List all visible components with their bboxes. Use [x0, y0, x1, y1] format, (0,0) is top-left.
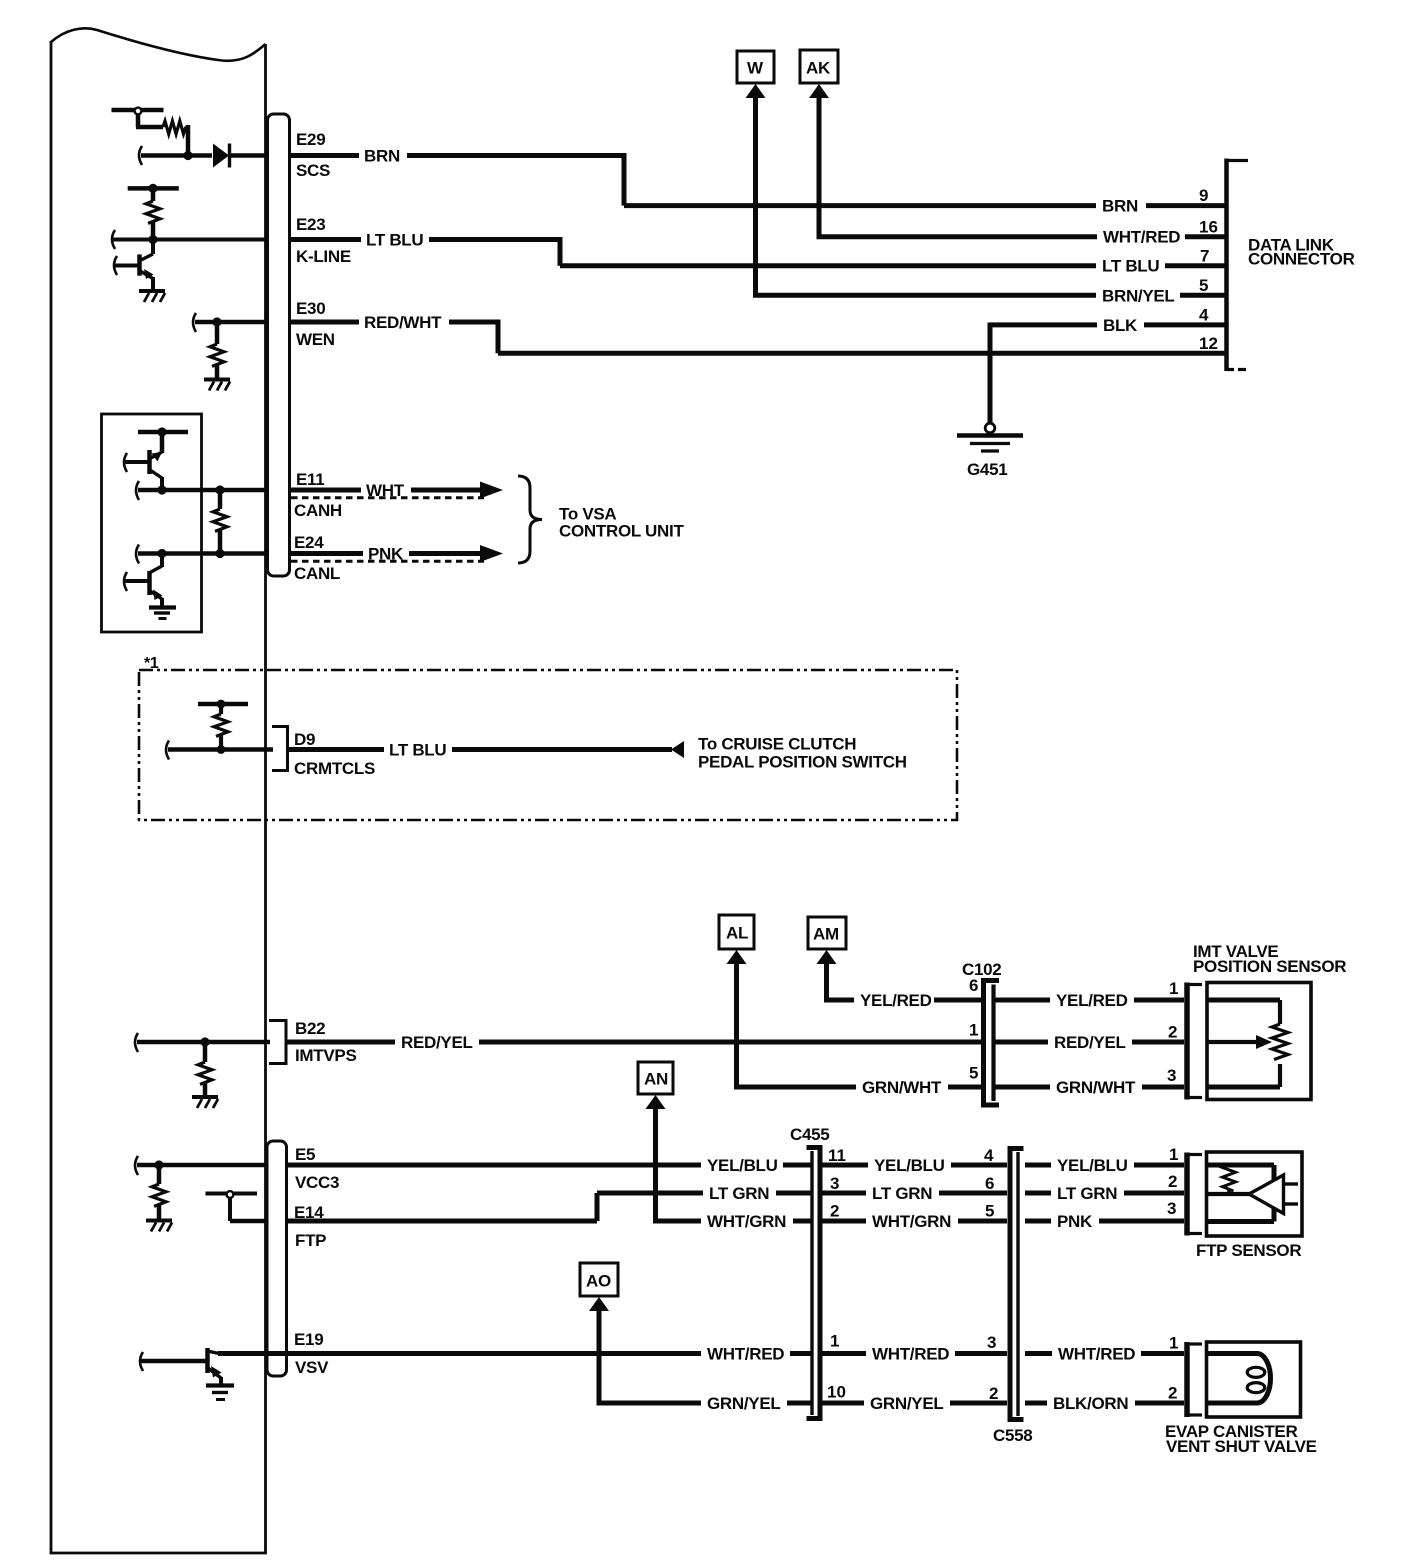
svg-text:PNK: PNK — [1057, 1212, 1093, 1231]
svg-text:9: 9 — [1199, 186, 1208, 205]
svg-text:FTP SENSOR: FTP SENSOR — [1196, 1241, 1301, 1260]
svg-text:2: 2 — [1168, 1384, 1177, 1403]
junction dot CANH — [157, 485, 166, 494]
junction dot D9 — [217, 745, 226, 754]
CAN supply bar — [138, 427, 188, 436]
resistor (VCC3 pull-down) — [152, 1165, 166, 1220]
svg-text:AL: AL — [726, 924, 748, 943]
wire LT GRN C558 to FTP sensor pin 2 — [1025, 1184, 1184, 1203]
junction dot E29 — [183, 151, 192, 160]
wire WHT/GRN C455 to C558 pin 5 — [822, 1212, 1007, 1231]
svg-text:7: 7 — [1200, 247, 1209, 266]
svg-text:FTP: FTP — [295, 1231, 326, 1250]
wire label LT BLU (DLC pin 7) — [1096, 257, 1165, 276]
svg-text:VCC3: VCC3 — [295, 1173, 339, 1192]
IMT valve position sensor connector bracket — [1186, 983, 1202, 1100]
wire WHT/RED C558 to EVAP valve pin 1 — [1025, 1345, 1184, 1364]
pin E30 WEN — [296, 299, 335, 349]
wire RED/YEL from B22 to C102 pin 1 — [286, 1033, 981, 1052]
connector box AL — [719, 915, 754, 949]
dashed line CANH — [291, 496, 484, 499]
connector C558 — [993, 1149, 1032, 1446]
svg-text:RED/YEL: RED/YEL — [1054, 1033, 1126, 1052]
wire YEL/BLU C455 to C558 pin 4 — [822, 1156, 1007, 1175]
svg-text:C102: C102 — [962, 960, 1001, 979]
svg-text:CRMTCLS: CRMTCLS — [294, 759, 375, 778]
wire B22 internal — [135, 1033, 270, 1052]
wire BRN/YEL to W — [746, 84, 1227, 295]
svg-text:BLK: BLK — [1103, 316, 1138, 335]
pin bracket D9 — [272, 727, 288, 771]
wire LT GRN from E14 to C455 pin 3 — [286, 1184, 811, 1221]
svg-text:YEL/BLU: YEL/BLU — [707, 1156, 778, 1175]
FTP sensor internals (resistor + transducer) — [1207, 1165, 1299, 1222]
svg-text:1: 1 — [969, 1021, 978, 1040]
wire YEL/RED from AM to C102 pin 6 — [817, 950, 982, 1010]
svg-text:2: 2 — [989, 1384, 998, 1403]
wire GRN/WHT C102 to IMT sensor pin 3 — [995, 1078, 1184, 1097]
svg-text:12: 12 — [1199, 334, 1218, 353]
wire label WHT/RED (DLC pin 16) — [1097, 228, 1185, 247]
junction dot E23 — [148, 235, 157, 244]
svg-text:E11: E11 — [296, 470, 324, 489]
resistor (E23 pull-up) — [128, 184, 179, 241]
svg-text:CANL: CANL — [294, 564, 340, 583]
resistor CAN termination — [213, 490, 227, 554]
diode (E29 output) — [213, 144, 267, 168]
svg-text:C558: C558 — [993, 1426, 1032, 1445]
ground (IMTVPS resistor) — [192, 1097, 218, 1108]
svg-text:E5: E5 — [295, 1145, 315, 1164]
svg-text:CANH: CANH — [294, 501, 342, 520]
svg-text:E30: E30 — [296, 299, 325, 318]
wire WHT/RED C455 to C558 pin 3 — [822, 1345, 1007, 1364]
ground G451 — [957, 423, 1023, 479]
svg-text:D9: D9 — [294, 730, 315, 749]
svg-text:SCS: SCS — [296, 161, 330, 180]
wire BRN from E29 to DLC pin 9 — [289, 147, 1226, 206]
svg-text:GRN/WHT: GRN/WHT — [1056, 1078, 1136, 1097]
svg-text:LT GRN: LT GRN — [1057, 1184, 1117, 1203]
wire RED/YEL C102 to IMT sensor pin 2 — [995, 1033, 1184, 1052]
pin D9 CRMTCLS — [294, 730, 375, 778]
wire WHT (CANH to VSA) — [289, 481, 503, 500]
svg-text:6: 6 — [985, 1174, 994, 1193]
svg-text:WHT/GRN: WHT/GRN — [872, 1212, 951, 1231]
transistor CANH driver — [124, 432, 162, 491]
junction dot E30 — [212, 317, 221, 326]
svg-text:1: 1 — [1169, 1334, 1178, 1353]
switch contact (E29 driver) — [112, 108, 164, 127]
pin bracket B22 — [269, 1021, 286, 1064]
pin E5 VCC3 — [295, 1145, 339, 1192]
svg-text:YEL/BLU: YEL/BLU — [1057, 1156, 1128, 1175]
svg-text:VSV: VSV — [295, 1358, 329, 1377]
ECM/PCM module outline (torn wavy top) — [51, 28, 266, 1553]
wire E24 internal — [136, 545, 267, 564]
switch contact (FTP input) — [206, 1191, 258, 1221]
svg-text:AO: AO — [586, 1272, 611, 1291]
svg-text:2: 2 — [830, 1202, 839, 1221]
svg-text:GRN/WHT: GRN/WHT — [862, 1078, 942, 1097]
ground (WEN resistor) — [204, 380, 230, 391]
resistor (E29 series) — [158, 121, 188, 157]
wire GRN/YEL from AO to C455 pin 10 — [589, 1297, 811, 1413]
svg-text:PEDAL POSITION SWITCH: PEDAL POSITION SWITCH — [698, 753, 907, 772]
svg-text:16: 16 — [1199, 218, 1218, 237]
pin E23 K-LINE — [296, 215, 351, 266]
svg-text:IMTVPS: IMTVPS — [295, 1046, 357, 1065]
svg-text:RED/WHT: RED/WHT — [364, 313, 442, 332]
wire GRN/WHT from AL to C102 pin 5 — [727, 950, 982, 1097]
C455 pin numbers 11 3 2 1 10 — [827, 1146, 846, 1402]
svg-text:WHT/RED: WHT/RED — [1058, 1345, 1135, 1364]
wire YEL/BLU from E5 to C455 pin 11 — [286, 1156, 811, 1175]
svg-text:CONNECTOR: CONNECTOR — [1248, 250, 1355, 269]
wire label BRN (DLC pin 9) — [1096, 197, 1146, 216]
wire YEL/RED C102 to IMT sensor pin 1 — [995, 991, 1184, 1010]
connector box AM — [808, 917, 846, 949]
wire WHT/GRN from AN to C455 pin 2 — [646, 1095, 812, 1231]
wire LT BLU from E23 to DLC pin 7 — [289, 231, 1226, 266]
svg-text:3: 3 — [987, 1333, 996, 1352]
svg-text:1: 1 — [1169, 1145, 1178, 1164]
transistor CANL driver — [124, 554, 163, 608]
wire E23 internal — [112, 230, 267, 249]
wire E29 internal — [139, 146, 212, 165]
connector C455 — [790, 1125, 829, 1419]
svg-text:1: 1 — [1169, 979, 1178, 998]
wire PNK C558 to FTP sensor pin 3 — [1025, 1212, 1184, 1231]
svg-text:WEN: WEN — [296, 330, 335, 349]
svg-text:BLK/ORN: BLK/ORN — [1053, 1394, 1128, 1413]
EVAP canister vent shut valve box — [1165, 1342, 1317, 1456]
svg-text:GRN/YEL: GRN/YEL — [870, 1394, 943, 1413]
svg-text:E29: E29 — [296, 130, 325, 149]
pin E11 CANH — [294, 470, 342, 520]
EVAP valve pin numbers 1 2 — [1168, 1334, 1178, 1403]
EVAP valve connector bracket — [1186, 1342, 1202, 1417]
resistor (WEN pull-down) — [210, 322, 224, 379]
C102 pin numbers 6 1 5 — [969, 976, 978, 1083]
wire E11 internal — [136, 481, 267, 500]
junction dot CANL — [157, 549, 166, 558]
svg-text:5: 5 — [969, 1064, 978, 1083]
CAN driver block box — [102, 414, 202, 632]
solenoid coil inside EVAP valve — [1207, 1354, 1271, 1404]
svg-text:10: 10 — [827, 1383, 846, 1402]
svg-text:YEL/RED: YEL/RED — [860, 991, 932, 1010]
resistor (CRMTCLS pull-up) — [198, 700, 248, 751]
svg-text:11: 11 — [828, 1146, 846, 1165]
svg-text:W: W — [747, 59, 764, 78]
svg-text:WHT/RED: WHT/RED — [1103, 228, 1180, 247]
ground (K-line driver emitter) — [139, 291, 165, 302]
svg-text:YEL/BLU: YEL/BLU — [874, 1156, 945, 1175]
svg-text:4: 4 — [984, 1146, 994, 1165]
svg-text:LT GRN: LT GRN — [709, 1184, 769, 1203]
svg-text:E24: E24 — [294, 533, 324, 552]
svg-text:AM: AM — [813, 925, 839, 944]
svg-text:E23: E23 — [296, 215, 325, 234]
wire label BRN/YEL (DLC pin 5) — [1096, 287, 1180, 306]
connector box W — [737, 51, 774, 83]
wire LT BLU to cruise clutch pedal position switch — [287, 735, 907, 772]
svg-text:2: 2 — [1168, 1172, 1177, 1191]
pin B22 IMTVPS — [295, 1019, 357, 1065]
svg-text:BRN/YEL: BRN/YEL — [1102, 287, 1175, 306]
svg-text:2: 2 — [1168, 1023, 1177, 1042]
ECM connector strip E5-E19 — [267, 1141, 287, 1376]
junction dot (CAN terminating resistor top) — [215, 485, 224, 494]
pin E19 VSV — [294, 1330, 329, 1377]
ground (VSV driver emitter) — [206, 1386, 234, 1400]
brace to VSA control unit — [518, 476, 684, 563]
svg-text:WHT/RED: WHT/RED — [872, 1345, 949, 1364]
svg-text:LT BLU: LT BLU — [366, 231, 423, 250]
svg-text:WHT/GRN: WHT/GRN — [707, 1212, 786, 1231]
junction dot E5 — [154, 1160, 163, 1169]
potentiometer inside IMT sensor — [1207, 1000, 1288, 1087]
svg-text:C455: C455 — [790, 1125, 829, 1144]
DLC pin numbers 9 16 7 5 4 12 — [1199, 186, 1218, 353]
wire BLK/ORN C558 to EVAP valve pin 2 — [1025, 1394, 1184, 1413]
DATA LINK CONNECTOR bracket — [1226, 159, 1355, 372]
wire D9 internal — [166, 741, 273, 760]
wire E14 internal — [230, 1219, 267, 1224]
svg-text:G451: G451 — [967, 460, 1007, 479]
wire LT GRN C455 to C558 pin 6 — [822, 1184, 1007, 1203]
svg-text:LT BLU: LT BLU — [1102, 257, 1159, 276]
svg-text:3: 3 — [830, 1174, 839, 1193]
FTP sensor connector bracket — [1186, 1153, 1202, 1236]
wire BLK from DLC pin 4 to G451 — [990, 316, 1226, 425]
svg-text:5: 5 — [1199, 276, 1208, 295]
svg-text:WHT/RED: WHT/RED — [707, 1345, 784, 1364]
svg-text:VENT SHUT VALVE: VENT SHUT VALVE — [1166, 1437, 1317, 1456]
dashed line CANL — [291, 560, 484, 563]
ground (VCC3 resistor) — [146, 1221, 172, 1232]
junction dot (CAN terminating resistor bottom) — [215, 549, 224, 558]
svg-text:CONTROL UNIT: CONTROL UNIT — [559, 522, 684, 541]
wire PNK (CANL to VSA) — [289, 545, 503, 564]
svg-text:5: 5 — [985, 1202, 994, 1221]
wire RED/WHT from E30 to DLC pin 12 — [289, 313, 1226, 353]
ECM connector strip E29-E24 — [268, 114, 290, 576]
FTP sensor pin numbers 1 2 3 — [1167, 1145, 1178, 1218]
svg-text:K-LINE: K-LINE — [296, 247, 351, 266]
wire GRN/YEL C455 to C558 pin 2 — [822, 1394, 1007, 1413]
svg-text:POSITION SENSOR: POSITION SENSOR — [1193, 957, 1346, 976]
wire E5 internal — [135, 1156, 267, 1175]
svg-text:AN: AN — [644, 1070, 668, 1089]
connector C102 — [962, 960, 1001, 1105]
wire WHT/RED from E19 to C455 pin 1 — [218, 1345, 811, 1364]
wire E30 internal — [193, 313, 267, 332]
C558 pin numbers 4 6 5 3 2 — [984, 1146, 998, 1403]
svg-text:BRN: BRN — [364, 147, 400, 166]
connector box AN — [638, 1062, 673, 1094]
svg-text:3: 3 — [1167, 1199, 1176, 1218]
svg-text:LT BLU: LT BLU — [389, 741, 446, 760]
svg-text:1: 1 — [830, 1332, 839, 1351]
pin E29 SCS — [296, 130, 330, 180]
svg-text:YEL/RED: YEL/RED — [1056, 991, 1128, 1010]
svg-text:3: 3 — [1167, 1066, 1176, 1085]
resistor (IMTVPS pull-down) — [198, 1042, 212, 1097]
transistor (K-line driver) — [114, 240, 154, 291]
transistor (VSV driver) — [140, 1348, 222, 1385]
ground (CANL driver emitter) — [149, 608, 176, 619]
connector box AK — [800, 50, 838, 83]
connector box AO — [580, 1263, 618, 1296]
svg-text:4: 4 — [1199, 306, 1209, 325]
svg-text:GRN/YEL: GRN/YEL — [707, 1394, 780, 1413]
svg-text:RED/YEL: RED/YEL — [401, 1033, 473, 1052]
svg-text:BRN: BRN — [1102, 197, 1138, 216]
svg-text:B22: B22 — [295, 1019, 325, 1038]
dashed option box *1 — [139, 655, 957, 820]
pin E14 FTP — [294, 1203, 326, 1250]
IMT valve position sensor box — [1193, 942, 1346, 1100]
junction dot B22 — [200, 1037, 209, 1046]
svg-text:To CRUISE CLUTCH: To CRUISE CLUTCH — [698, 735, 856, 754]
svg-text:6: 6 — [969, 976, 978, 995]
pin E24 CANL — [294, 533, 340, 583]
wire WHT/RED to AK — [809, 84, 1226, 237]
svg-text:LT GRN: LT GRN — [872, 1184, 932, 1203]
svg-text:AK: AK — [806, 59, 831, 78]
svg-text:E19: E19 — [294, 1330, 323, 1349]
FTP sensor box — [1196, 1152, 1302, 1260]
IMT sensor pin numbers 1 2 3 — [1167, 979, 1178, 1085]
wire YEL/BLU C558 to FTP sensor pin 1 — [1025, 1156, 1184, 1175]
